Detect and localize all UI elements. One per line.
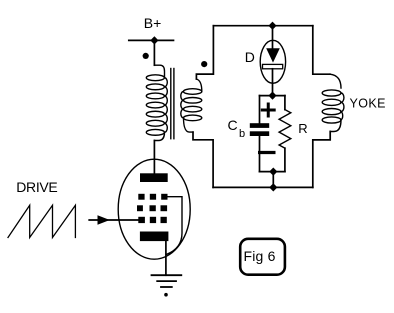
transformer T1 primary coil: [146, 75, 167, 135]
wire top rail: [213, 25, 312, 27]
wire right rail lower: [313, 132, 330, 188]
wire resistor branch upper: [284, 96, 286, 110]
yoke coil L1: [322, 90, 344, 123]
wire capacitor branch lower: [259, 136, 261, 172]
primary phasing dot: [143, 53, 149, 59]
resistor R: [279, 110, 291, 149]
diode D triangle: [266, 48, 280, 62]
wire diode anode: [272, 26, 274, 49]
secondary phasing dot: [201, 61, 207, 67]
ground: [152, 275, 182, 287]
tube V1 plate: [140, 173, 168, 182]
wire bottom rail: [213, 186, 313, 188]
svg-text:DRIVE: DRIVE: [16, 179, 57, 195]
svg-text:D: D: [245, 49, 255, 65]
wire network top: [260, 95, 285, 97]
transformer T1 secondary bottom hook: [184, 118, 194, 132]
wire primary to tube plate: [153, 141, 155, 174]
junction network bottom: [269, 168, 277, 176]
tube V1 grid row 2: [137, 205, 167, 211]
junction network top: [268, 92, 276, 100]
transformer T1 primary top hook: [154, 65, 164, 78]
svg-text:b: b: [239, 128, 245, 140]
tube V1 grid row 3: [138, 217, 167, 223]
diode D cathode bar: [263, 64, 283, 68]
wire secondary bottom lead: [193, 132, 213, 187]
svg-text:Fig 6: Fig 6: [243, 248, 275, 264]
transformer T1 primary bottom hook: [154, 132, 164, 140]
tube V1 grid row 1: [138, 194, 167, 200]
wire resistor branch lower: [284, 148, 286, 171]
wire diode cathode to network: [272, 69, 274, 96]
capacitor Cb bottom plate: [250, 131, 269, 136]
junction bottom rail: [269, 183, 277, 191]
transformer T1 secondary top hook: [196, 79, 201, 92]
wire secondary top lead: [196, 26, 213, 79]
transformer T1 core: [170, 69, 172, 139]
tube V1 beam plate wire: [166, 197, 182, 255]
tube V1 cathode: [140, 232, 169, 242]
yoke bottom hook: [330, 120, 341, 132]
wire drive line: [89, 219, 138, 221]
transformer T1 secondary coil: [181, 89, 202, 121]
wire network bottom: [260, 171, 285, 173]
wire capacitor branch upper: [259, 96, 261, 123]
junction B+ rail: [150, 36, 158, 44]
drive sawtooth waveform: [8, 205, 75, 237]
wire cathode lead: [165, 241, 167, 275]
svg-text:B+: B+: [144, 15, 162, 31]
wire B+ to primary: [153, 40, 155, 65]
plus sign: [262, 104, 274, 116]
minus sign: [260, 151, 274, 154]
yoke top hook: [330, 74, 341, 88]
tube V1 envelope: [118, 159, 190, 259]
wire right rail upper: [313, 26, 330, 74]
svg-text:C: C: [228, 117, 238, 133]
ground dot: [164, 293, 168, 297]
svg-text:R: R: [298, 121, 307, 136]
wire network to bottom rail: [272, 172, 274, 188]
diode D envelope: [260, 40, 285, 83]
drive arrowhead: [98, 215, 110, 225]
capacitor Cb top plate: [250, 123, 269, 128]
wire B+ rail: [129, 39, 174, 41]
Fig 6 box: [240, 239, 285, 275]
svg-text:YOKE: YOKE: [350, 97, 386, 111]
junction top rail: [268, 22, 276, 30]
